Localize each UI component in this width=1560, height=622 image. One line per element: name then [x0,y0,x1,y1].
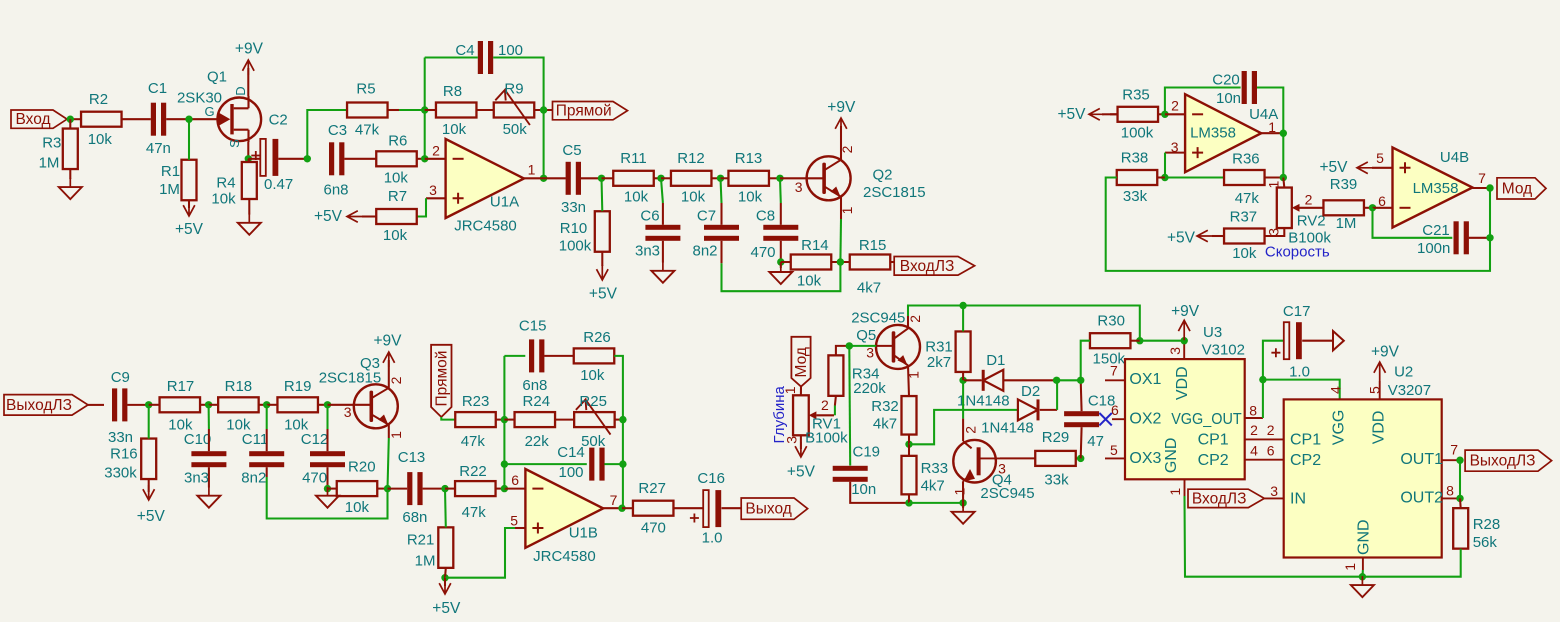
svg-text:CP1: CP1 [1290,432,1321,449]
svg-text:C4: C4 [455,42,474,59]
power +5V below R10 [601,252,603,266]
node R33 bottom/ground row [905,499,912,506]
resistor R34 [828,355,886,397]
svg-text:R7: R7 [388,188,407,205]
svg-text:2: 2 [388,376,404,384]
wire Q1 source down [247,142,249,159]
svg-text:470: 470 [302,470,327,487]
node input junction [67,116,74,123]
resistor R4 [211,162,256,207]
svg-text:R35: R35 [1122,87,1150,104]
node C14 left [501,460,508,467]
net label Выход [741,498,807,519]
wire R20 to node [377,488,387,490]
capacitor C3 [323,122,348,198]
node U1A output [540,175,547,182]
wire pin6 stub [504,488,525,490]
svg-text:JRC4580: JRC4580 [454,218,517,235]
capacitor C16 polarized 1.0 [690,470,725,546]
svg-text:3: 3 [1266,228,1282,236]
svg-text:U2: U2 [1394,364,1413,381]
svg-text:10k: 10k [345,499,370,516]
wire ground row to Q4 emitter [909,502,963,504]
wire C3 to R6 [344,158,376,160]
wire R26 to right leg [614,356,623,420]
wire D1 to node [1003,379,1056,381]
svg-text:U4A: U4A [1249,106,1278,123]
svg-text:CP2: CP2 [1290,452,1321,469]
wire node to C4 [425,56,478,58]
wire R25 to node [615,419,623,421]
svg-text:Прямой: Прямой [556,103,612,120]
svg-text:R25: R25 [579,393,607,410]
node R36/RV2 top [1280,174,1287,181]
svg-text:C2: C2 [269,112,288,129]
transistor Q5 2SC945 [851,309,923,378]
node U1B output [618,505,625,512]
svg-text:R15: R15 [859,237,887,254]
svg-text:VGG_OUT: VGG_OUT [1171,411,1242,428]
wire C13 to node [423,488,445,490]
svg-text:3: 3 [1167,347,1183,355]
svg-text:OX3: OX3 [1129,450,1161,467]
svg-text:C1: C1 [148,80,167,97]
svg-text:5: 5 [1376,150,1384,166]
node R31/D1/Q4 collector [959,377,966,384]
capacitor C15 [519,317,547,394]
power +5V below R21 [444,578,446,586]
capacitor C9 [108,369,133,446]
wire RV1 wiper to R34 bottom [834,406,836,416]
svg-text:2SK30: 2SK30 [177,90,222,107]
capacitor C20 [1212,71,1257,107]
node C12/R20/ground [324,485,331,492]
wire node to C6 [661,178,663,203]
power +5V at R37 [1212,235,1224,237]
resistor R39 [1323,176,1364,232]
svg-text:22k: 22k [525,433,550,450]
capacitor C21 [1417,221,1469,257]
resistor R35 [1118,87,1159,142]
svg-text:1: 1 [1342,563,1358,571]
svg-text:3n3: 3n3 [635,242,660,259]
svg-text:R21: R21 [407,531,435,548]
svg-text:+9V: +9V [373,332,402,349]
node R25/right leg [619,416,626,423]
capacitor C5 [561,142,586,216]
node ground row [1359,573,1366,580]
power +9V above Q2 [840,126,842,160]
resistor R17 [160,378,201,433]
svg-text:100: 100 [558,464,583,481]
svg-text:+5V: +5V [1167,230,1196,247]
svg-text:B100k: B100k [805,429,848,446]
node R13/C8/Q2 base [776,175,783,182]
svg-text:33n: 33n [108,429,133,446]
svg-text:U1B: U1B [569,525,598,542]
wire pin2 stub [425,158,446,160]
wire node to R36 [1165,176,1224,178]
resistor R38 [1117,150,1158,206]
wire R36 to node [1265,176,1284,178]
wire C21 to node [1469,237,1490,239]
svg-text:R2: R2 [89,91,108,108]
svg-text:8: 8 [1249,403,1257,419]
svg-text:4k7: 4k7 [857,280,881,297]
svg-text:2: 2 [821,397,829,413]
svg-text:R13: R13 [735,150,763,167]
wire node to R8 [425,109,436,111]
svg-text:R8: R8 [443,83,462,100]
resistor R31 [925,331,970,372]
svg-text:V3102: V3102 [1202,342,1245,359]
node gate junction [185,116,192,123]
node R23/R24 [501,416,508,423]
svg-text:R1: R1 [161,163,180,180]
svg-text:C14: C14 [557,444,585,461]
svg-text:4k7: 4k7 [873,416,897,433]
wire node down to C21 [1373,208,1453,238]
resistor R11 [613,150,654,206]
node Q4 emitter/ground [959,499,966,506]
transistor Q2 2SC1815 [795,145,926,214]
svg-text:10k: 10k [624,189,649,206]
net label Вход [11,110,67,128]
svg-text:R38: R38 [1121,150,1149,167]
svg-text:R23: R23 [462,393,490,410]
node Мод output [1486,184,1493,191]
svg-text:1.0: 1.0 [1289,364,1310,381]
wire C9 to node [127,404,149,406]
resistor R20 [337,458,378,516]
node C18/OX1/R30 [1077,377,1084,384]
wire VGG node to U2 VGG [1263,380,1340,400]
svg-text:50k: 50k [503,121,528,138]
trimmer R25 [574,393,615,450]
wire R28 bottom to ground row [1362,549,1460,577]
svg-text:V3207: V3207 [1388,382,1431,399]
wire R30 left to OX1 node [1081,341,1090,381]
svg-text:56k: 56k [1473,534,1498,551]
resistor R19 [277,378,318,433]
svg-text:OUT2: OUT2 [1400,489,1443,506]
wire R18 to node [259,404,267,406]
svg-text:LM358: LM358 [1413,180,1459,197]
node C21/feedback [1486,234,1493,241]
svg-text:+5V: +5V [589,286,618,303]
power +9V above Q3 [388,360,390,388]
wire left vertical leg [503,356,505,489]
svg-text:+5V: +5V [137,508,166,525]
power +9V at U2 VDD [1374,362,1386,381]
wire C18 bottom to node [1080,427,1083,458]
svg-text:220k: 220k [853,380,886,397]
svg-text:Мод: Мод [793,347,810,377]
wire label to C9 [88,404,104,406]
svg-text:R28: R28 [1473,516,1501,533]
wire C17 to flag [1302,340,1333,342]
power +5V at R7 [362,215,377,217]
node R31 top / top row [959,302,966,309]
ground at R14 left [780,262,782,268]
svg-text:R10: R10 [560,220,588,237]
svg-text:4: 4 [1328,386,1344,394]
net label ВходЛЗ [894,257,974,276]
wire C19 bottom to ground row [850,482,909,503]
wire output to C5 [544,177,566,179]
resistor R18 [218,378,259,433]
svg-text:R24: R24 [523,393,551,410]
power +9V above Q1 drain [247,68,249,96]
power +5V below R1 [188,200,190,208]
resistor R14 [791,237,832,289]
svg-text:8: 8 [1446,483,1454,499]
wire C1 to Q1 gate node [166,118,212,120]
wire R27 to C16 [674,507,704,509]
capacitor C10 [184,431,227,487]
op-amp U4A LM358 [1171,94,1278,172]
resistor R3 [39,129,78,172]
svg-text:R20: R20 [348,458,376,475]
wire Q2 emitter down [840,197,842,219]
svg-text:7: 7 [1450,442,1458,458]
svg-text:+9V: +9V [1371,343,1400,360]
svg-text:R6: R6 [388,133,407,150]
capacitor C12 [301,431,345,487]
wire VGG_OUT to C17 and U2 VGG [1263,341,1284,418]
wire C18 top to OX1 node [1080,380,1083,411]
wire vertical C4 left leg [424,58,426,159]
wire R8 to R9 [477,109,494,111]
wire C2 to node [278,158,307,160]
node R39/pin6/C21 [1369,204,1376,211]
svg-text:C15: C15 [519,317,547,334]
wire node to R1 [188,119,190,160]
wire pin3 stub [1165,152,1185,154]
svg-text:+5V: +5V [432,600,461,617]
wire R17 to node [200,404,209,406]
net label Прямой [553,102,628,120]
resistor R21 [407,527,453,569]
svg-text:1M: 1M [159,181,180,198]
node C5/R10/R11 [598,175,605,182]
svg-text:5: 5 [510,513,518,529]
wire right leg down to output [622,420,624,509]
capacitor C14 [557,444,604,481]
no-connect on OX2 [1099,413,1111,425]
wire OUT2 node to R28 [1459,498,1462,508]
svg-text:+5V: +5V [787,463,816,480]
wire R14 to node [831,261,849,263]
wire C7 bottom to emitter node [720,241,722,263]
resistor R29 [1035,429,1076,489]
svg-text:6: 6 [1111,402,1119,418]
resistor R37 [1224,209,1265,262]
svg-text:10k: 10k [681,189,706,206]
wire C16 to label [722,507,742,509]
wire node to D1 [963,379,981,381]
svg-text:6: 6 [1378,193,1386,209]
ground below C10 [208,467,210,487]
resistor R32 [871,396,916,435]
wire Q3 base [328,404,372,406]
capacitor C19 [833,444,880,498]
svg-text:2SC1815: 2SC1815 [863,184,926,201]
wire node down [1489,188,1491,238]
svg-text:6: 6 [1267,442,1275,458]
svg-text:3: 3 [429,182,437,198]
svg-text:5: 5 [1110,442,1118,458]
svg-text:+5V: +5V [1319,159,1348,176]
svg-text:7: 7 [610,492,618,508]
svg-text:1.0: 1.0 [702,529,723,546]
resistor R1 [159,160,196,201]
svg-text:47k: 47k [461,433,486,450]
wire node to R21 [444,489,447,528]
wire Вход to node [67,118,81,120]
svg-text:10k: 10k [442,121,467,138]
net label ВыходЛЗ output [1465,450,1552,471]
svg-text:C17: C17 [1283,303,1311,320]
wire C12 bottom to node [326,467,328,488]
svg-text:+9V: +9V [235,41,264,58]
wire R24 to R25 [555,419,574,421]
wire RV2 bottom to R37 [1265,228,1285,236]
node VGG junction [1259,376,1266,383]
svg-text:47: 47 [1087,433,1104,450]
svg-text:C20: C20 [1212,72,1240,89]
svg-text:R32: R32 [871,398,899,415]
resistor R15 [850,237,891,297]
svg-text:6n8: 6n8 [323,181,348,198]
svg-text:R4: R4 [216,174,235,191]
wire U2 GND to ground row [1361,570,1364,577]
node C13/R21/R22 [441,485,448,492]
wire node to C7 [721,178,722,203]
wire C20 to right leg [1257,88,1283,134]
svg-text:10k: 10k [1232,245,1257,262]
wire C4 to right leg [493,58,543,111]
svg-text:D2: D2 [1021,383,1040,400]
svg-text:R12: R12 [677,150,705,167]
wire label to R23 [441,417,455,420]
svg-text:OX2: OX2 [1129,411,1161,428]
node R12/C7 [717,175,724,182]
svg-text:10n: 10n [1216,90,1241,107]
wire R39 to node [1364,207,1373,209]
wire OUT1 to OUT2 tie [1459,460,1461,498]
svg-text:VGG: VGG [1330,410,1347,446]
wire U1B output [603,507,622,509]
net label Прямой vertical [431,345,451,417]
wire node to D2 [909,410,1018,444]
svg-text:4k7: 4k7 [921,477,945,494]
svg-text:2: 2 [963,426,979,434]
wire node up to R5 [307,110,347,159]
svg-text:7: 7 [1478,170,1486,186]
svg-text:S: S [227,139,242,148]
ground symbol bottom right [1361,576,1363,585]
svg-text:R14: R14 [801,237,829,254]
resistor R5 [347,81,388,139]
wire top row to C15 [504,355,525,357]
svg-text:47n: 47n [146,140,171,157]
svg-text:JRC4580: JRC4580 [533,548,596,565]
wire C14 left [504,463,586,465]
svg-text:C7: C7 [697,208,716,225]
wire R30 right to node [1131,340,1140,342]
wire R34 top to node [836,346,849,355]
svg-text:10k: 10k [580,367,605,384]
svg-text:7: 7 [1110,362,1118,378]
svg-text:VDD: VDD [1370,411,1387,445]
wire node to C8 [779,178,782,203]
node C8/R14/ground [777,258,784,265]
svg-text:10k: 10k [384,169,409,186]
node after C2 [304,155,311,162]
wire R6 to node [417,158,425,160]
wire R3 to ground [69,169,71,179]
svg-text:3: 3 [866,345,874,361]
node R18/R19/C11 [263,401,270,408]
resistor R16 [104,439,156,482]
transistor Q3 2SC1815 [319,355,404,439]
svg-text:ВыходЛЗ: ВыходЛЗ [1470,453,1536,470]
resistor R12 [671,150,712,206]
svg-text:470: 470 [641,520,666,537]
svg-text:CP2: CP2 [1198,452,1229,469]
svg-text:2SC945: 2SC945 [851,309,905,326]
svg-text:1N4148: 1N4148 [957,392,1010,409]
svg-text:Прямой: Прямой [433,351,450,407]
svg-text:Q5: Q5 [856,327,876,344]
svg-text:C21: C21 [1422,222,1450,239]
resistor R8 [436,83,477,138]
svg-text:R26: R26 [583,329,611,346]
svg-text:+5V: +5V [314,208,343,225]
wire C8 bottom to R14 node [780,241,782,262]
resistor R30 [1090,312,1131,367]
svg-text:R19: R19 [284,378,312,395]
wire base [780,177,824,179]
svg-text:R11: R11 [620,150,646,167]
svg-text:RV2: RV2 [1297,213,1326,230]
svg-text:Q1: Q1 [207,68,227,85]
wire output down to R36 node [1282,133,1284,177]
wire R21 bottom to pin5 [445,528,515,578]
svg-text:33k: 33k [1044,472,1069,489]
svg-text:+5V: +5V [1057,106,1086,123]
wire R11 to node [654,177,661,179]
svg-text:U3: U3 [1203,324,1222,341]
svg-text:+9V: +9V [827,99,856,116]
power +9V at U3 VDD [1181,337,1188,344]
resistor R28 [1453,508,1500,551]
wire Q5 emitter down to R32 [908,365,909,396]
svg-text:2SC945: 2SC945 [980,485,1034,502]
resistor R24 [515,393,556,450]
node U4A pin2 [1161,111,1168,118]
svg-text:68n: 68n [402,509,427,526]
svg-text:1: 1 [1266,180,1282,188]
svg-text:R29: R29 [1042,429,1070,446]
wire R29 to node [1076,457,1081,459]
op-amp U1B JRC4580 [510,469,617,565]
svg-text:Мод: Мод [1502,180,1532,197]
svg-text:D1: D1 [986,352,1005,369]
svg-text:C6: C6 [640,208,659,225]
svg-text:C12: C12 [301,431,329,448]
